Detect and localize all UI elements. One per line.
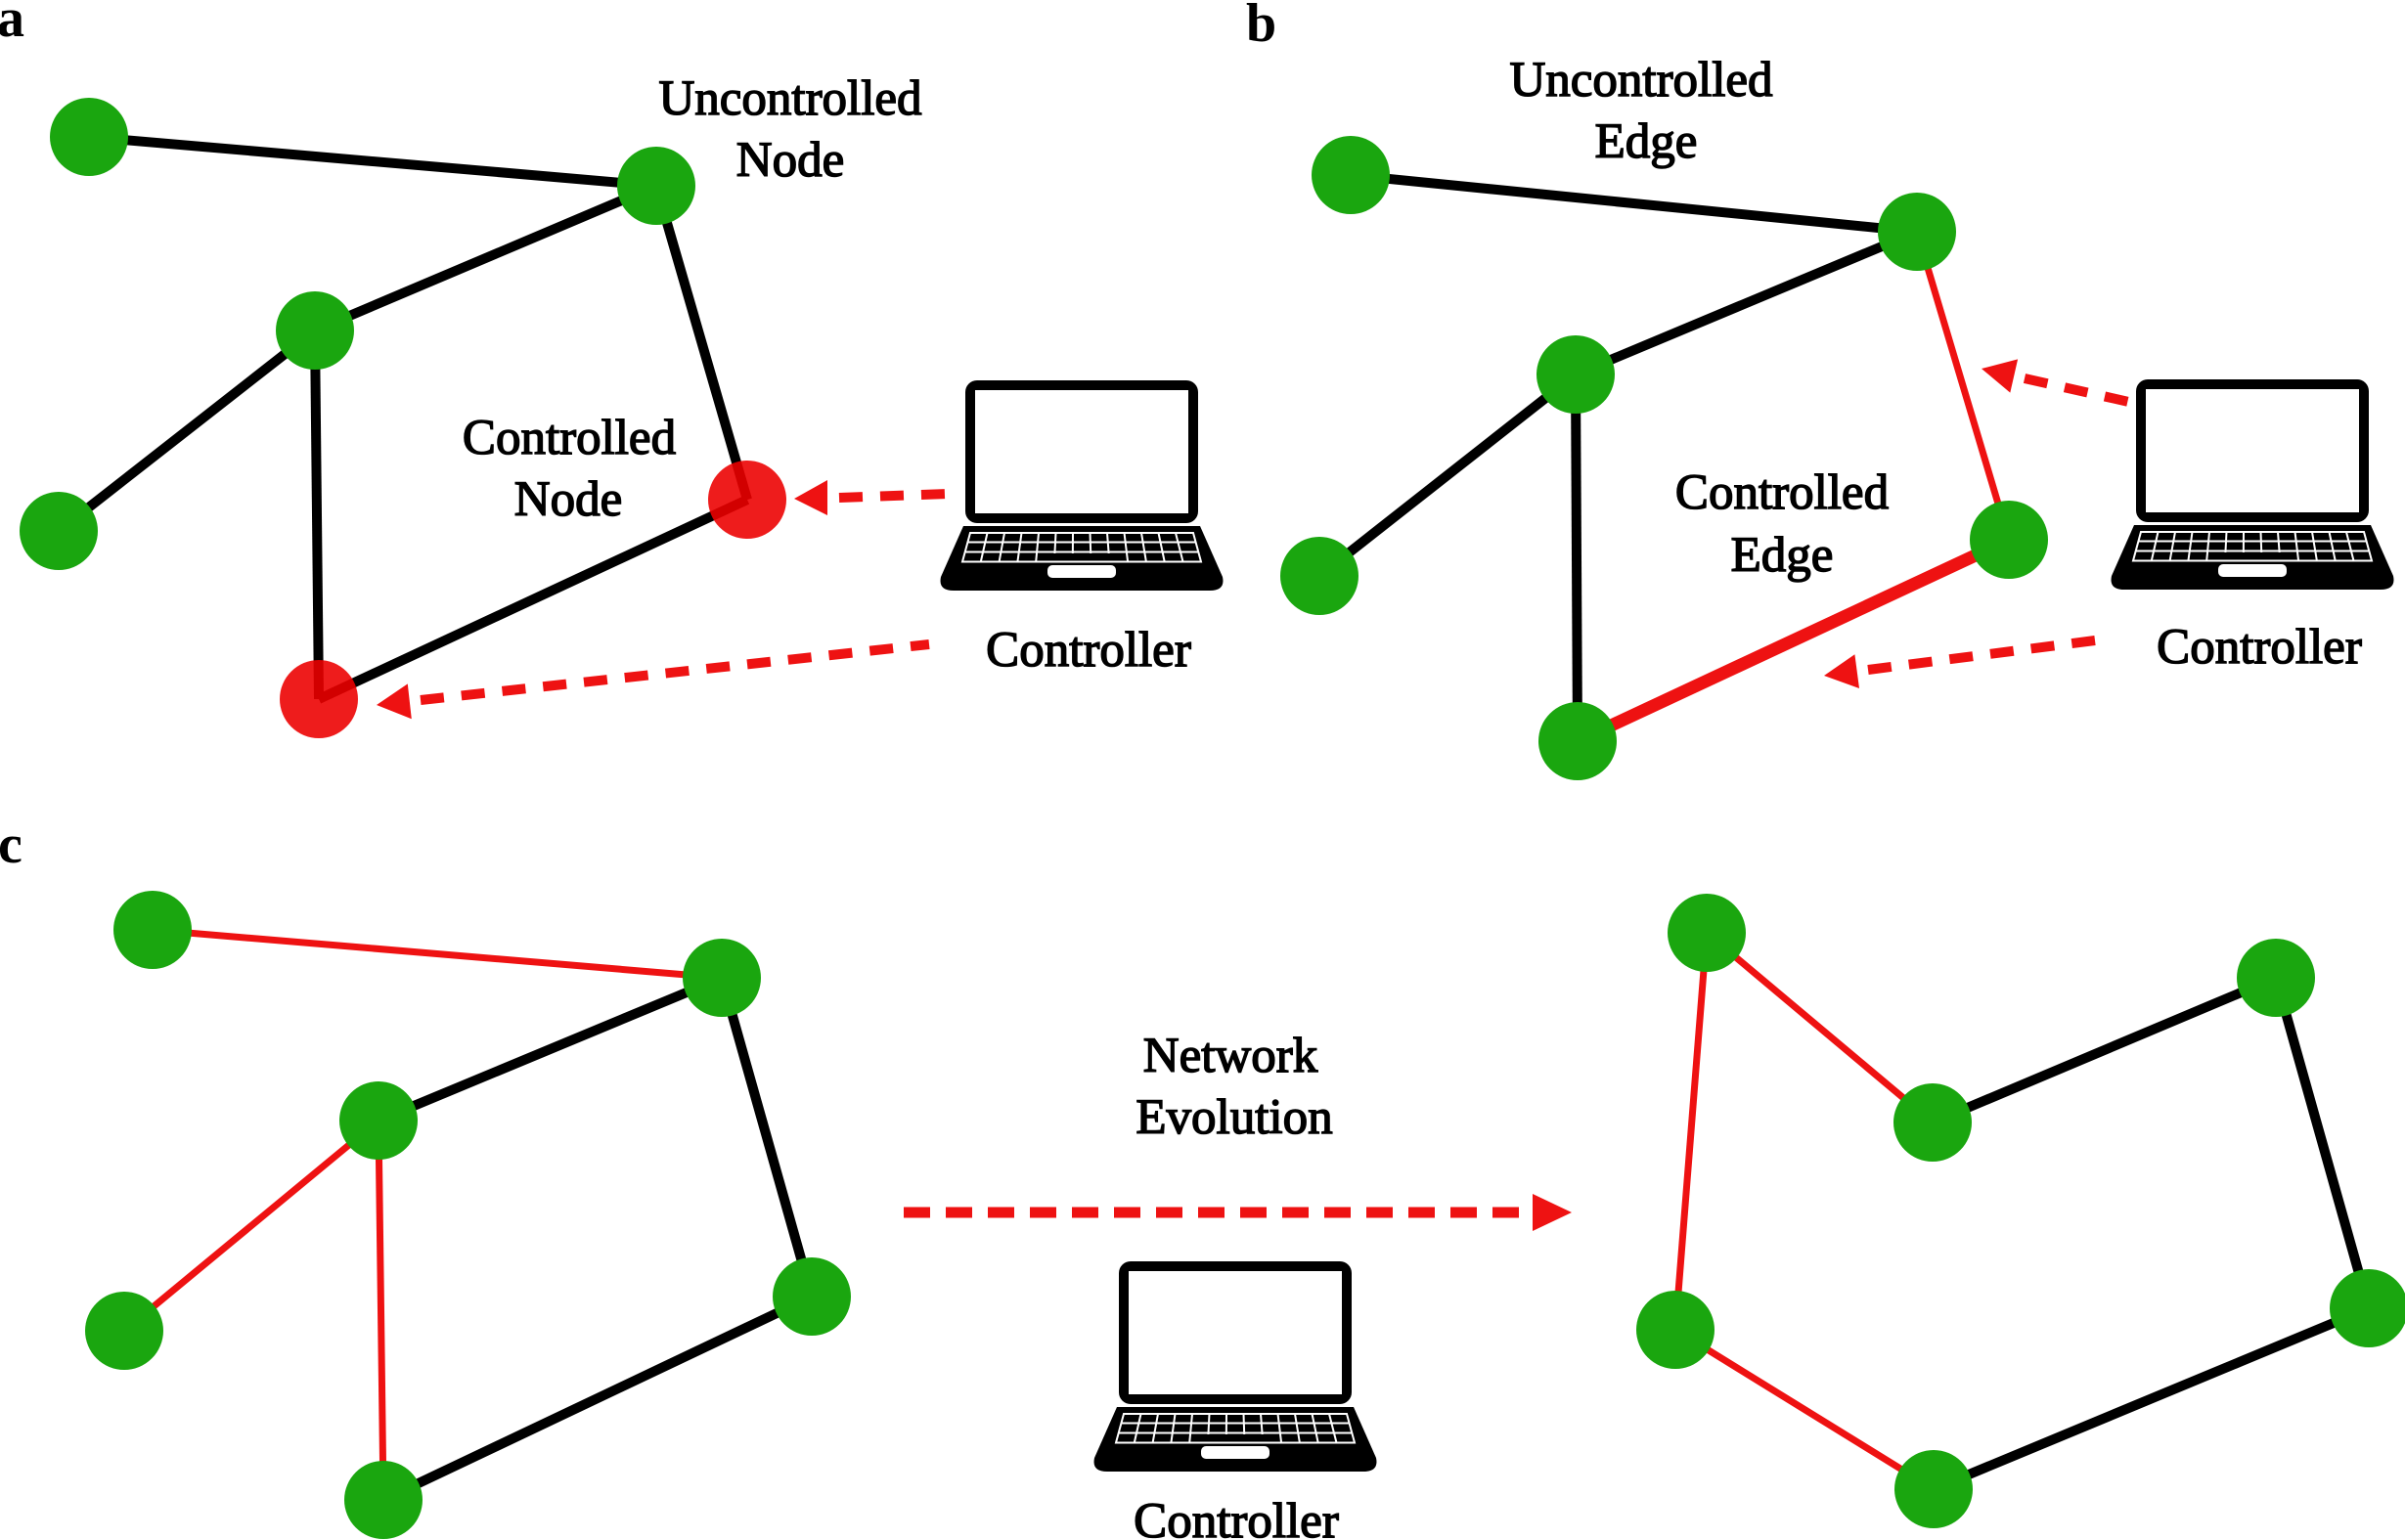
svg-text:Edge: Edge [1595, 114, 1698, 169]
node A6 red controlled [280, 660, 358, 738]
node C4 green [85, 1292, 163, 1370]
node A1 green [50, 98, 128, 176]
big dashed arrow network evolution [904, 1194, 1572, 1231]
node C12 green [1894, 1450, 1973, 1528]
node C1 green [113, 891, 192, 969]
node B1 green [1312, 136, 1390, 214]
svg-text:Controlled: Controlled [1675, 465, 1889, 520]
node C7 green [1668, 894, 1746, 972]
wire edge C3-C6 red [379, 1121, 383, 1500]
dashed arrow laptop-b to edge B2-B5 [1982, 359, 2142, 405]
svg-text:Controller: Controller [986, 623, 1191, 678]
svg-text:Controller: Controller [1134, 1494, 1339, 1540]
node B6 green [1538, 702, 1617, 780]
node C6 green [344, 1461, 423, 1539]
node C3 green [339, 1081, 418, 1160]
svg-text:Network: Network [1143, 1029, 1318, 1083]
dashed arrow laptop-a to node A5 [794, 480, 947, 515]
node A2 green [617, 147, 695, 225]
text Network Evolution [1136, 1029, 1332, 1145]
dashed arrow laptop-b to edge B5-B6 [1824, 640, 2095, 688]
wire edge A1-A2 [89, 137, 656, 186]
wire controlled edge B5-B6 red thick [1578, 540, 2009, 741]
wire edge C5-C6 black [383, 1297, 812, 1500]
svg-text:Uncontrolled: Uncontrolled [1509, 53, 1772, 108]
svg-text:Edge: Edge [1731, 528, 1834, 583]
text Uncontrolled Node [658, 71, 921, 188]
node C11 green [2330, 1269, 2405, 1347]
svg-text:Uncontrolled: Uncontrolled [658, 71, 921, 126]
wire edge A2-A3 [315, 186, 656, 330]
laptop controller b [2112, 379, 2394, 590]
node C9 green [1893, 1083, 1972, 1162]
wire edge B3-B4 [1319, 374, 1576, 576]
wire edge C7-C10 red [1675, 933, 1707, 1330]
svg-text:Node: Node [736, 133, 844, 188]
wire edge C8-C11 black [2276, 978, 2369, 1308]
svg-text:c: c [0, 814, 22, 875]
node B2 green [1878, 193, 1956, 271]
svg-text:Controlled: Controlled [463, 411, 676, 465]
laptop controller a [941, 380, 1224, 591]
wire edge B2-B3 [1576, 232, 1917, 374]
wire controlled edge B2-B5 red [1917, 232, 2009, 540]
wire edge C7-C9 red [1707, 933, 1933, 1122]
text Uncontrolled Edge [1509, 53, 1772, 169]
node C8 green [2237, 939, 2315, 1017]
node B5 green [1970, 501, 2048, 579]
wire edge C3-C4 red [124, 1121, 379, 1331]
node C2 green [683, 939, 761, 1017]
node B4 green [1280, 537, 1358, 615]
wire edge B1-B2 [1351, 175, 1917, 232]
wire edge C9-C8 black [1933, 978, 2276, 1122]
wire edge C2-C3 black [379, 978, 722, 1121]
wire edge B3-B6 [1576, 374, 1578, 741]
node A4 green [20, 492, 98, 570]
svg-text:a: a [0, 0, 24, 49]
svg-text:b: b [1246, 0, 1276, 54]
svg-text:Controller: Controller [2157, 620, 2362, 675]
text Controlled Node [463, 411, 676, 527]
node B3 green [1537, 335, 1615, 414]
svg-text:Node: Node [514, 472, 622, 527]
wire edge C1-C2 red [153, 930, 722, 978]
node C5 green [773, 1257, 851, 1336]
wire edge C12-C11 black [1934, 1308, 2369, 1489]
wire edge C10-C12 red [1675, 1330, 1934, 1489]
wire edge C2-C5 black [722, 978, 812, 1297]
node C10 green [1636, 1291, 1715, 1369]
text Controlled Edge [1675, 465, 1889, 583]
node A3 green [276, 291, 354, 370]
wire edge A6-A5 [319, 500, 747, 699]
svg-text:Evolution: Evolution [1136, 1090, 1332, 1145]
wire edge A2-A5 [656, 186, 747, 500]
node A5 red controlled [708, 461, 786, 539]
laptop controller c [1094, 1261, 1377, 1472]
wire edge A3-A4 [59, 330, 315, 531]
wire edge A3-A6 [315, 330, 319, 699]
dashed arrow laptop-a to node A6 [377, 644, 929, 719]
